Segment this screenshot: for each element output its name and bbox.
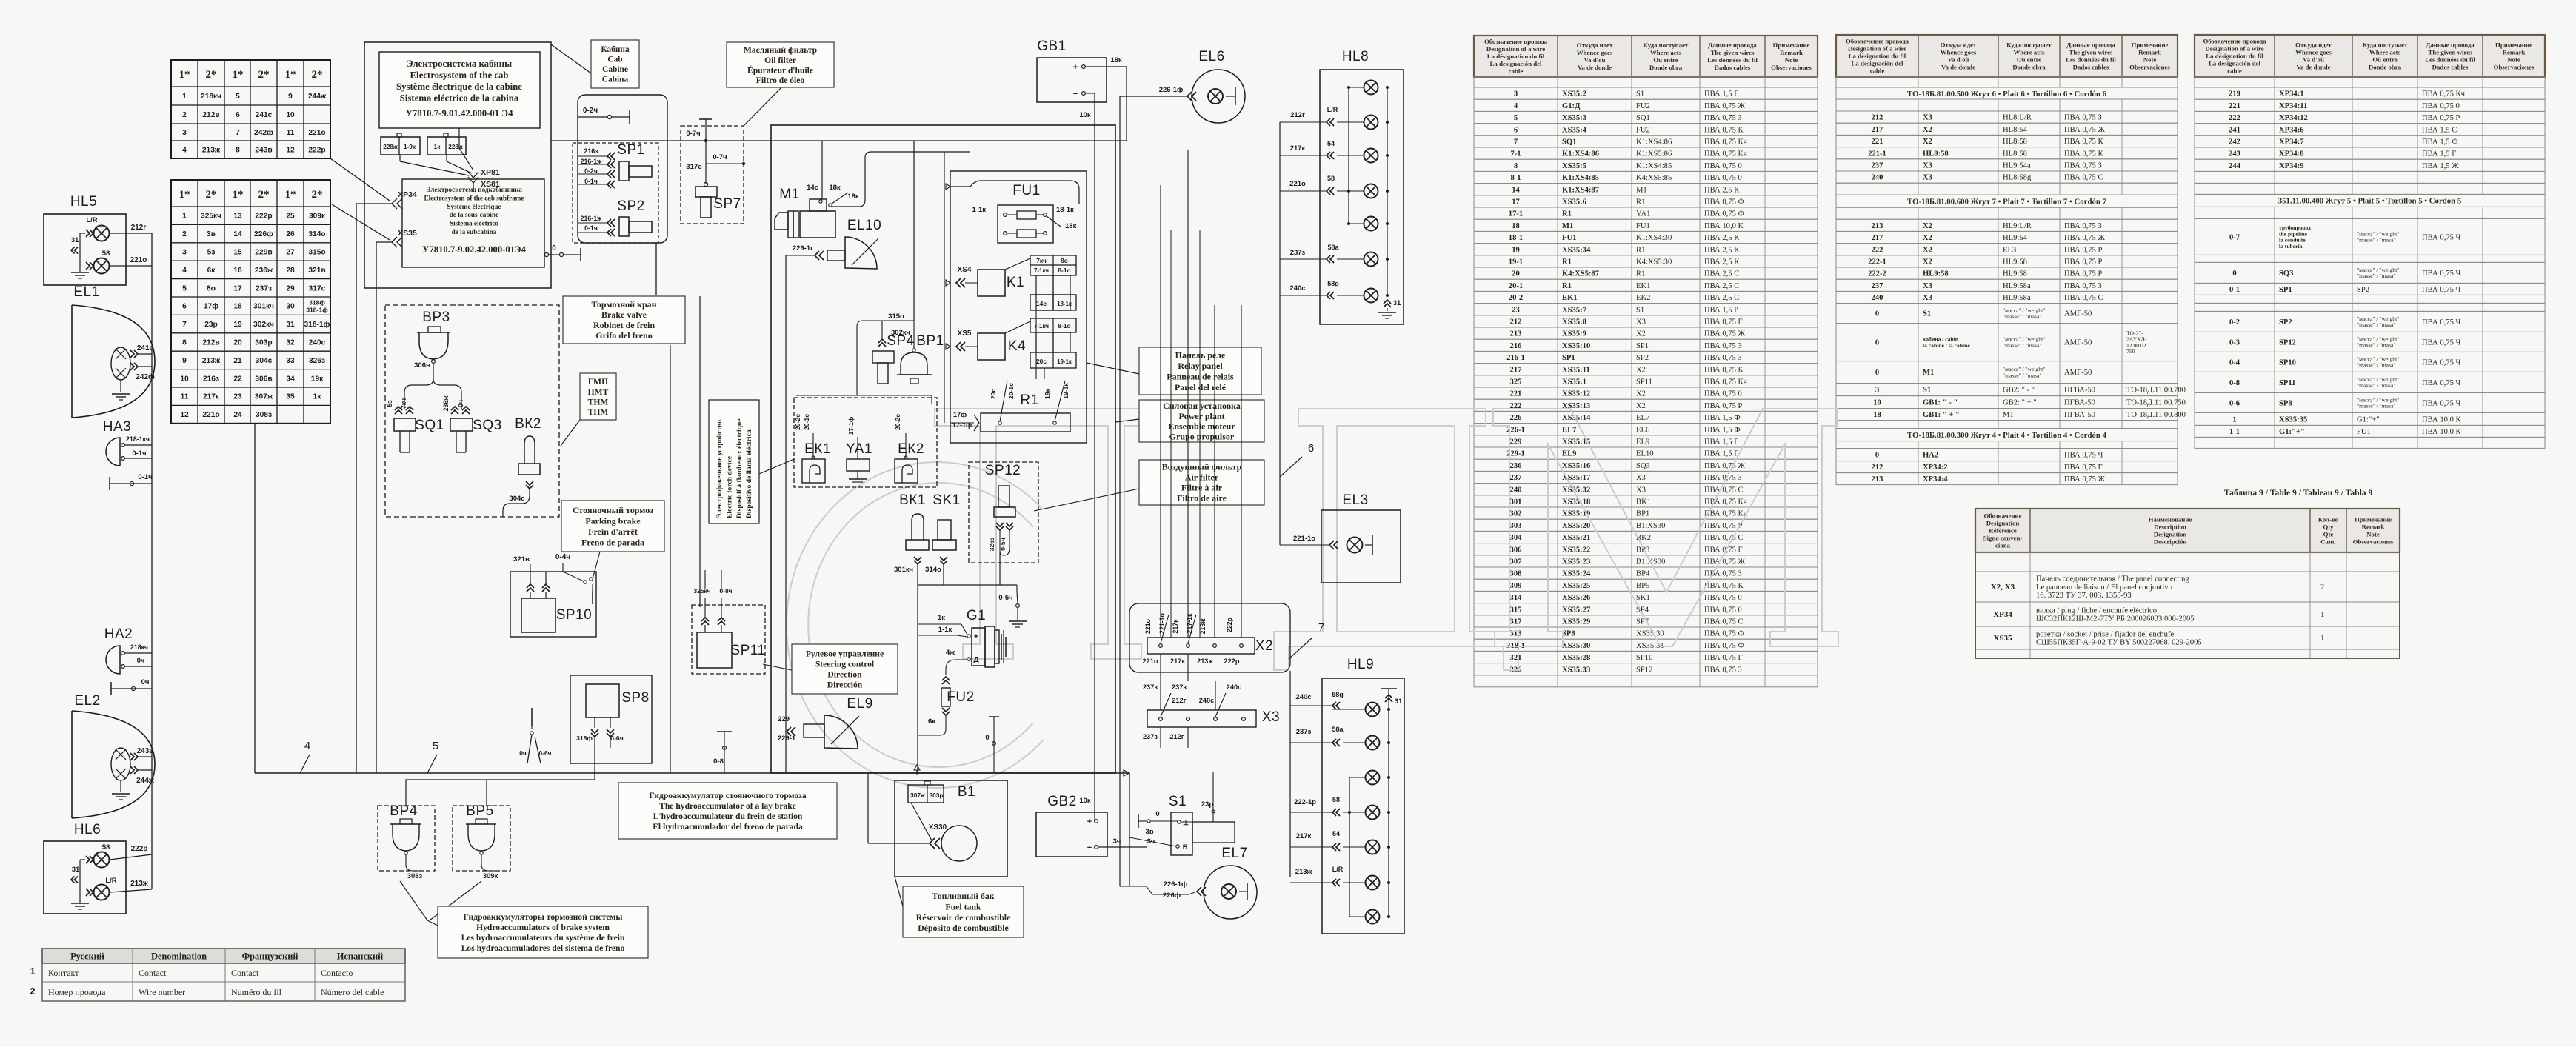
svg-text:ПВА 0,75 Ч: ПВА 0,75 Ч: [2422, 339, 2461, 347]
svg-text:EK1: EK1: [1562, 294, 1578, 302]
wire table 1 (left): [1474, 36, 1818, 77]
svg-text:ПВА 1,5 Ж: ПВА 1,5 Ж: [2422, 162, 2459, 170]
svg-text:SP10: SP10: [1636, 654, 1652, 662]
svg-text:ПВА 0,75 Кч: ПВА 0,75 Кч: [1704, 150, 1748, 158]
svg-text:221-1о: 221-1о: [1293, 535, 1315, 543]
svg-text:EL9: EL9: [1636, 438, 1649, 446]
svg-text:24: 24: [233, 411, 242, 419]
svg-text:YA1: YA1: [1636, 210, 1650, 218]
svg-text:226ф: 226ф: [1163, 892, 1181, 900]
svg-text:EK2: EK2: [1636, 294, 1650, 302]
svg-text:Direction: Direction: [827, 670, 862, 680]
svg-text:Whence goes: Whence goes: [1941, 49, 1977, 56]
svg-text:306в: 306в: [414, 361, 430, 369]
svg-text:ПВА 1,5 Г: ПВА 1,5 Г: [1704, 450, 1738, 458]
svg-text:Denomination: Denomination: [151, 951, 207, 962]
svg-text:SP11: SP11: [730, 643, 765, 658]
svg-text:ПВА 0,75 С: ПВА 0,75 С: [2064, 174, 2103, 182]
svg-text:Remark: Remark: [2503, 49, 2526, 56]
svg-text:Топливный бак: Топливный бак: [932, 891, 994, 901]
svg-text:HA3: HA3: [103, 419, 131, 435]
svg-text:S1: S1: [1923, 310, 1931, 318]
svg-text:XP34: XP34: [1993, 610, 2012, 619]
svg-text:2: 2: [182, 111, 187, 119]
svg-text:6: 6: [236, 111, 240, 119]
svg-text:Обозначение: Обозначение: [1983, 512, 2021, 520]
svg-text:EL9: EL9: [847, 696, 872, 712]
svg-text:241: 241: [2229, 126, 2240, 134]
svg-text:X3: X3: [1636, 318, 1646, 327]
svg-text:BP1: BP1: [1636, 510, 1649, 518]
svg-text:ПГВА-50: ПГВА-50: [2064, 411, 2095, 419]
svg-text:L/R: L/R: [1332, 866, 1344, 873]
svg-text:XS35:32: XS35:32: [1562, 486, 1590, 494]
svg-text:217к: 217к: [1172, 619, 1179, 634]
connector panel X2: [1147, 638, 1255, 654]
svg-text:ПГВА-50: ПГВА-50: [2064, 387, 2095, 395]
svg-text:ПВА 0,75 0: ПВА 0,75 0: [1704, 390, 1742, 398]
svg-text:K1: K1: [1007, 275, 1024, 290]
svg-text:Гидроаккумуляторы тормозной си: Гидроаккумуляторы тормозной системы: [464, 912, 623, 922]
svg-text:АМГ-50: АМГ-50: [2064, 339, 2092, 347]
svg-text:АМГ-50: АМГ-50: [2064, 369, 2092, 377]
svg-text:G1:"+": G1:"+": [2279, 428, 2305, 436]
svg-text:XS35:29: XS35:29: [1562, 618, 1590, 626]
svg-text:216: 216: [1510, 342, 1522, 350]
relay K1 contact grid: [1030, 255, 1076, 275]
svg-text:314о: 314о: [308, 230, 325, 238]
svg-text:ПВА 0,75 Ч: ПВА 0,75 Ч: [2422, 318, 2461, 327]
svg-text:XS35:30: XS35:30: [1636, 630, 1664, 638]
svg-text:X2: X2: [1636, 402, 1646, 410]
svg-text:ВК1: ВК1: [899, 492, 926, 508]
svg-text:0-6: 0-6: [2229, 400, 2240, 408]
svg-text:216з: 216з: [203, 375, 219, 383]
svg-text:212г: 212г: [1172, 697, 1186, 704]
svg-text:ХР81: ХР81: [481, 168, 500, 177]
svg-text:La designación del: La designación del: [1490, 60, 1542, 67]
svg-text:ПВА 0,75 Ж: ПВА 0,75 Ж: [2064, 126, 2106, 134]
svg-text:19: 19: [233, 321, 242, 329]
svg-text:17: 17: [1512, 198, 1520, 207]
svg-text:Description: Description: [2154, 523, 2186, 531]
svg-text:ПВА 0,75 0: ПВА 0,75 0: [1704, 174, 1742, 182]
svg-text:302кч: 302кч: [253, 321, 274, 329]
svg-text:Dispositivo de llama eléctrica: Dispositivo de llama eléctrica: [745, 429, 753, 518]
svg-text:306: 306: [1510, 546, 1522, 554]
svg-text:ПВА 1,5 Р: ПВА 1,5 Р: [1704, 306, 1738, 314]
svg-text:237з: 237з: [256, 284, 272, 292]
svg-text:Contact: Contact: [231, 968, 259, 978]
svg-text:13: 13: [233, 213, 242, 221]
svg-text:ПВА 0,75 З: ПВА 0,75 З: [1704, 666, 1742, 674]
svg-text:FU2: FU2: [1636, 102, 1650, 110]
svg-text:Note: Note: [2143, 56, 2157, 64]
svg-text:32: 32: [286, 339, 295, 347]
svg-text:18: 18: [1512, 222, 1520, 230]
svg-text:Observaciones: Observaciones: [2129, 64, 2170, 71]
svg-text:Qté: Qté: [2323, 531, 2334, 538]
svg-text:ПВА 0,75 З: ПВА 0,75 З: [1704, 114, 1742, 122]
svg-text:4: 4: [304, 740, 310, 752]
svg-text:1*: 1*: [179, 189, 190, 201]
fuse FU2: [942, 677, 950, 680]
svg-text:EL10: EL10: [1636, 450, 1654, 458]
svg-text:ПВА 0,75 Ф: ПВА 0,75 Ф: [1704, 210, 1744, 218]
svg-text:240с: 240с: [1289, 284, 1305, 292]
svg-text:R1: R1: [1636, 198, 1645, 207]
svg-text:HL9: HL9: [1347, 657, 1374, 672]
svg-text:217: 217: [1510, 366, 1523, 374]
svg-text:0: 0: [985, 734, 989, 742]
svg-text:Where acts: Where acts: [2369, 49, 2401, 56]
svg-text:7: 7: [1318, 621, 1324, 634]
svg-text:0: 0: [1875, 310, 1879, 318]
svg-text:1*: 1*: [179, 69, 190, 81]
svg-text:XS35:34: XS35:34: [1562, 246, 1591, 254]
svg-text:222-1: 222-1: [1868, 258, 1886, 267]
svg-text:Désignation: Désignation: [2154, 531, 2187, 538]
svg-text:G1:"+": G1:"+": [2357, 416, 2380, 424]
svg-text:Donde obra: Donde obra: [2369, 64, 2402, 71]
svg-text:Электрофакельное устройство: Электрофакельное устройство: [715, 420, 724, 518]
callout: Панель реле / Relay panel: [1139, 347, 1261, 395]
glow plugs box EK1 YA1 EK2: [794, 398, 937, 487]
svg-text:X2: X2: [1636, 390, 1646, 398]
wires SP8 to BP4 BP5: [406, 763, 595, 806]
svg-text:241с: 241с: [256, 111, 273, 119]
svg-text:SP2: SP2: [1636, 354, 1649, 362]
svg-text:ПВА 0,75 Ж: ПВА 0,75 Ж: [2064, 475, 2106, 484]
svg-text:229: 229: [778, 715, 790, 723]
svg-text:ПВА 0,75 Ч: ПВА 0,75 Ч: [2422, 400, 2461, 408]
svg-text:FU2: FU2: [1636, 126, 1650, 134]
svg-text:5: 5: [236, 93, 240, 101]
svg-text:217: 217: [1872, 126, 1884, 134]
svg-text:XS35:30: XS35:30: [1562, 642, 1590, 650]
svg-text:222р: 222р: [1226, 617, 1233, 632]
svg-text:Данные провода: Данные провода: [2066, 41, 2115, 49]
svg-text:XS35:28: XS35:28: [1562, 654, 1590, 662]
svg-text:Наименование: Наименование: [2149, 516, 2192, 523]
svg-text:301: 301: [1510, 498, 1522, 506]
svg-text:222р: 222р: [255, 213, 272, 221]
svg-text:L/R: L/R: [105, 877, 116, 885]
svg-text:Donde obra: Donde obra: [1649, 64, 1683, 71]
svg-text:242ф: 242ф: [136, 372, 155, 381]
svg-text:"masse" / "masa": "masse" / "masa": [2357, 272, 2395, 279]
svg-text:XS35:26: XS35:26: [1562, 594, 1590, 602]
svg-text:S1: S1: [1169, 794, 1187, 809]
svg-text:"masse" / "masa": "masse" / "masa": [2357, 321, 2395, 328]
svg-text:Cab: Cab: [607, 56, 622, 64]
svg-text:ЕК2: ЕК2: [898, 441, 924, 457]
svg-text:321: 321: [1510, 654, 1522, 662]
svg-text:XS35:7: XS35:7: [1562, 306, 1587, 314]
wire: XP34 bus down: [356, 204, 357, 773]
svg-text:HL9:58: HL9:58: [2003, 270, 2027, 278]
svg-text:318ф: 318ф: [576, 735, 593, 742]
connector 1к/228ж: [427, 137, 466, 155]
svg-text:СШ55ПК35Г-А-9-02 ТУ BY 500227: СШ55ПК35Г-А-9-02 ТУ BY 500227068. 029-20…: [2036, 639, 2202, 647]
svg-text:ПВА 2,5 К: ПВА 2,5 К: [1704, 186, 1740, 194]
svg-text:Descripción: Descripción: [2154, 538, 2187, 546]
svg-text:Le panneau de liaison / El pa: Le panneau de liaison / El panel conjunt…: [2036, 583, 2172, 592]
svg-text:"masse" / "masa": "masse" / "masa": [2003, 372, 2041, 378]
svg-text:213ж: 213ж: [202, 357, 221, 365]
svg-text:Dados cables: Dados cables: [2432, 64, 2469, 71]
svg-text:10к: 10к: [1079, 797, 1091, 805]
svg-text:La designación del: La designación del: [1852, 60, 1903, 67]
svg-text:213: 213: [1872, 475, 1883, 484]
svg-text:EL7: EL7: [1636, 414, 1649, 422]
svg-text:ВР1: ВР1: [916, 333, 944, 349]
svg-text:244ж: 244ж: [136, 777, 155, 785]
svg-text:317с: 317с: [686, 163, 701, 171]
contact 0-1ч stub: [109, 477, 110, 490]
svg-text:19-1к: 19-1к: [1057, 358, 1072, 365]
svg-text:Where acts: Where acts: [1650, 49, 1682, 56]
svg-text:30: 30: [286, 303, 295, 311]
svg-text:+: +: [1087, 817, 1092, 826]
svg-text:Куда поступает: Куда поступает: [2006, 41, 2052, 49]
svg-text:ПВА 1,5 Ф: ПВА 1,5 Ф: [1704, 414, 1741, 422]
svg-text:0-2: 0-2: [2229, 318, 2240, 327]
svg-text:Les hydroaccumulateurs du syst: Les hydroaccumulateurs du système de fre…: [461, 933, 625, 943]
svg-text:0-7ч: 0-7ч: [686, 130, 700, 138]
svg-text:ПВА 0,75 Г: ПВА 0,75 Г: [1704, 318, 1743, 327]
svg-text:21: 21: [233, 357, 242, 365]
svg-text:K1:XS5:86: K1:XS5:86: [1636, 150, 1672, 158]
svg-text:Designation of a wire: Designation of a wire: [2205, 45, 2263, 53]
svg-text:217к: 217к: [1170, 658, 1185, 665]
brake accumulator SP10: [510, 572, 596, 637]
svg-text:31: 31: [1395, 698, 1403, 706]
svg-text:307ж: 307ж: [910, 792, 925, 799]
svg-text:20-1: 20-1: [1509, 282, 1523, 290]
svg-text:222-2: 222-2: [1868, 270, 1886, 278]
svg-text:317с: 317с: [309, 284, 326, 292]
svg-text:ПВА 0,75 0: ПВА 0,75 0: [1704, 594, 1742, 602]
svg-text:318ф: 318ф: [309, 299, 325, 307]
svg-text:Grupo propulsor: Grupo propulsor: [1169, 431, 1235, 441]
svg-text:"masse" / "masa": "masse" / "masa": [2357, 237, 2395, 244]
svg-text:Remark: Remark: [2138, 49, 2161, 56]
svg-text:Обозначение провода: Обозначение провода: [1846, 38, 1909, 45]
svg-text:X2, X3: X2, X3: [1991, 583, 2015, 592]
svg-text:307ж: 307ж: [255, 393, 273, 401]
svg-text:Réservoir de combustible: Réservoir de combustible: [916, 912, 1011, 923]
parts table (Table 9): [1975, 509, 2400, 552]
svg-text:10: 10: [1873, 399, 1881, 407]
svg-text:Sistema eléctrico: Sistema eléctrico: [450, 220, 498, 227]
svg-text:SQ1: SQ1: [415, 418, 444, 433]
legend table bottom-left: [42, 949, 405, 963]
svg-text:ПВА 0,75 Г: ПВА 0,75 Г: [2064, 464, 2103, 472]
svg-text:Système électrique: Système électrique: [447, 203, 501, 210]
svg-text:242ф: 242ф: [254, 128, 273, 137]
svg-text:ПГВА-50: ПГВА-50: [2064, 399, 2095, 407]
svg-text:20с: 20с: [990, 389, 997, 400]
svg-text:FU1: FU1: [1636, 222, 1650, 230]
svg-text:Va de donde: Va de donde: [1941, 64, 1975, 71]
svg-text:HL9:L/R: HL9:L/R: [2003, 222, 2032, 230]
svg-text:237: 237: [1872, 162, 1884, 170]
svg-text:240с: 240с: [1295, 693, 1311, 701]
X2/X3 riser wires: [1160, 185, 1161, 638]
svg-text:ПВА 2,5 С: ПВА 2,5 С: [1704, 294, 1739, 302]
callout: Кабина / Cab: [591, 40, 639, 88]
svg-text:19к: 19к: [311, 375, 324, 383]
svg-text:18: 18: [233, 303, 242, 311]
svg-text:ПВА 0,75 З: ПВА 0,75 З: [1704, 342, 1742, 350]
relay K4 contact grid: [1030, 318, 1076, 332]
svg-text:19-1к: 19-1к: [1062, 383, 1070, 399]
svg-text:R1: R1: [1562, 210, 1572, 218]
brake accumulator SP8: [570, 675, 652, 763]
svg-text:K1:XS4:87: K1:XS4:87: [1562, 186, 1600, 194]
svg-text:0-8: 0-8: [713, 757, 724, 766]
svg-text:325кч: 325кч: [694, 587, 711, 595]
svg-text:20-2с: 20-2с: [894, 414, 901, 430]
svg-text:Contacto: Contacto: [321, 968, 353, 978]
svg-text:213: 213: [1510, 330, 1522, 338]
svg-text:⊥: ⊥: [1183, 819, 1189, 826]
svg-text:2*: 2*: [258, 189, 270, 201]
svg-text:17ф: 17ф: [953, 411, 967, 418]
glow plug EK2 symbol: [895, 459, 918, 483]
svg-text:+: +: [1073, 63, 1078, 72]
svg-text:Número del cable: Número del cable: [321, 987, 384, 997]
svg-text:XS35:18: XS35:18: [1562, 498, 1590, 506]
svg-text:Гидроаккумулятор стояночного т: Гидроаккумулятор стояночного тормоза: [649, 791, 806, 800]
svg-text:X3: X3: [1923, 114, 1932, 122]
svg-text:4: 4: [1514, 102, 1518, 110]
svg-text:SP12: SP12: [1636, 666, 1652, 674]
svg-text:2*: 2*: [312, 189, 323, 201]
svg-text:ПВА 2,5 С: ПВА 2,5 С: [1704, 282, 1739, 290]
svg-text:Panel del relé: Panel del relé: [1175, 382, 1227, 392]
svg-text:cable: cable: [2227, 67, 2242, 75]
svg-text:K1:XS4:30: K1:XS4:30: [1636, 234, 1672, 242]
hydro accumulator BP4: [378, 806, 435, 871]
svg-text:Filtro de óleo: Filtro de óleo: [756, 76, 805, 85]
svg-text:SP1: SP1: [2279, 286, 2292, 294]
svg-text:Кол-во: Кол-во: [2318, 516, 2339, 523]
svg-text:0: 0: [1875, 369, 1879, 377]
svg-text:HL9:58: HL9:58: [1923, 270, 1949, 278]
svg-text:Designation: Designation: [1986, 520, 2020, 527]
svg-text:1: 1: [182, 93, 187, 101]
svg-text:31: 31: [71, 236, 79, 244]
cab subframe electrosystem box: [402, 179, 544, 267]
svg-text:16. 3723 ТУ 37. 003. 1358-93: 16. 3723 ТУ 37. 003. 1358-93: [2036, 592, 2132, 600]
svg-text:Brake valve: Brake valve: [601, 310, 647, 320]
svg-text:SQ1: SQ1: [1636, 114, 1650, 122]
svg-text:14: 14: [1512, 186, 1520, 194]
svg-text:НМТ: НМТ: [588, 387, 609, 397]
svg-text:240: 240: [1872, 174, 1883, 182]
svg-text:SK1: SK1: [932, 492, 960, 508]
svg-text:Whence goes: Whence goes: [1577, 49, 1613, 56]
svg-text:Испанский: Испанский: [337, 951, 384, 962]
svg-text:Контакт: Контакт: [48, 968, 79, 978]
svg-text:SP7: SP7: [713, 196, 741, 212]
svg-text:X2: X2: [1923, 258, 1932, 267]
svg-text:23: 23: [1512, 306, 1520, 314]
svg-text:Note: Note: [2366, 531, 2380, 538]
svg-text:1-9к: 1-9к: [404, 144, 416, 150]
svg-text:FU2: FU2: [947, 689, 974, 705]
svg-text:The given wires: The given wires: [2429, 49, 2473, 56]
svg-text:0: 0: [1875, 452, 1879, 460]
svg-text:221: 221: [1872, 138, 1883, 146]
svg-text:212в: 212в: [202, 111, 219, 119]
svg-text:M1: M1: [779, 187, 799, 202]
wire table 2 (middle): [1836, 35, 2178, 77]
svg-text:7кч: 7кч: [1036, 257, 1047, 264]
svg-text:Обозначение провода: Обозначение провода: [1484, 38, 1548, 45]
svg-text:X2: X2: [1636, 366, 1646, 374]
svg-text:ВР4: ВР4: [390, 803, 417, 819]
svg-text:Hydroaccumulators of brake sys: Hydroaccumulators of brake system: [476, 923, 610, 932]
svg-text:212в: 212в: [202, 339, 219, 347]
svg-text:221о: 221о: [1144, 618, 1152, 634]
svg-text:17ф: 17ф: [204, 302, 218, 311]
svg-text:58g: 58g: [1327, 280, 1339, 287]
watermark: [787, 409, 1838, 788]
svg-text:ПВА 0,75 Ч: ПВА 0,75 Ч: [2064, 452, 2103, 460]
marker 7: [1289, 638, 1312, 659]
svg-text:Куда поступает: Куда поступает: [1644, 41, 1689, 49]
svg-text:237з: 237з: [1172, 683, 1187, 691]
svg-text:301кч: 301кч: [253, 303, 274, 311]
callout: Гидроаккумуляторы тормозной системы: [438, 906, 648, 958]
svg-text:ПВА 0,75 К: ПВА 0,75 К: [1704, 366, 1744, 374]
svg-text:ПВА 0,75 0: ПВА 0,75 0: [2422, 102, 2460, 110]
svg-text:XP34:6: XP34:6: [2279, 126, 2304, 134]
svg-text:7-1кч: 7-1кч: [1034, 267, 1049, 274]
callout: Гидроаккумулятор стояночного тормоза: [618, 783, 837, 839]
svg-text:229: 229: [1510, 438, 1522, 446]
top bus 0-7ч: [551, 140, 1127, 141]
svg-text:9: 9: [182, 357, 187, 365]
svg-text:Relay panel: Relay panel: [1178, 361, 1223, 371]
svg-text:301кч: 301кч: [894, 566, 913, 574]
svg-text:221-1о: 221-1о: [1158, 612, 1166, 633]
svg-text:Wire number: Wire number: [139, 987, 185, 997]
svg-text:750: 750: [2126, 348, 2135, 355]
svg-text:15: 15: [233, 249, 242, 257]
svg-text:Cant.: Cant.: [2320, 538, 2336, 546]
svg-text:243в: 243в: [255, 147, 272, 155]
svg-text:0-1: 0-1: [2229, 286, 2240, 294]
svg-text:ПВА 0,75 Г: ПВА 0,75 Г: [1704, 654, 1743, 662]
hydro accumulator BP5: [453, 806, 510, 871]
svg-text:FU1: FU1: [1012, 183, 1040, 198]
svg-text:X2: X2: [1923, 234, 1932, 242]
svg-text:ВР3: ВР3: [422, 310, 450, 325]
svg-text:5: 5: [1514, 114, 1518, 122]
svg-text:розетка / socket / prise / fij: розетка / socket / prise / fijador del e…: [2036, 630, 2174, 638]
svg-text:ПВА 0,75 Ж: ПВА 0,75 Ж: [2064, 234, 2106, 242]
svg-text:8о: 8о: [207, 284, 216, 292]
svg-text:XS4: XS4: [958, 266, 972, 274]
svg-text:XS35:25: XS35:25: [1562, 582, 1590, 590]
svg-text:ПВА 0,75 З: ПВА 0,75 З: [1704, 474, 1742, 482]
svg-text:307: 307: [1510, 558, 1523, 566]
svg-text:4: 4: [182, 267, 187, 275]
